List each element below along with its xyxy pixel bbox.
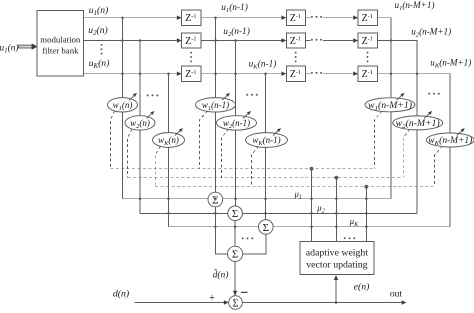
wire row1 delay2 to dots	[306, 17, 311, 19]
weight w2(n)	[125, 111, 155, 130]
dashed control to weight w2(n)	[128, 129, 133, 178]
wire tap u1(n-1) column down to summer S1	[215, 18, 217, 193]
dashed control to weight wK(n-1)	[252, 146, 259, 187]
svg-text:u2​(n-1): u2​(n-1)	[223, 26, 250, 38]
svg-text:uK​(n-1): uK​(n-1)	[249, 59, 277, 71]
vertical dots below third delay column	[367, 52, 369, 54]
svg-text:u1​(n): u1​(n)	[89, 5, 108, 17]
dashed control to weight w2(n-1)	[222, 129, 229, 178]
wire u2(n-1) row between delay columns	[201, 40, 281, 42]
wire summer S1 output down and right to final summer	[215, 207, 227, 254]
weight wK(n-1)	[246, 128, 288, 147]
wire tap u1(n) column down to sum bus 1	[122, 18, 124, 199]
ellipsis dots above update box	[344, 237, 346, 239]
wire u2(n) row from filter bank to first delay	[84, 40, 177, 42]
delay Z2 row2	[182, 33, 201, 48]
svg-text:u2​(n): u2​(n)	[88, 25, 107, 37]
summer S1 channel 1	[208, 192, 223, 207]
wire from dashed bus K into update box	[365, 187, 367, 242]
svg-text:filter bank: filter bank	[42, 45, 79, 55]
wire d(n) into error summer	[135, 302, 225, 304]
svg-text:d(n): d(n)	[113, 289, 129, 300]
wire from dashed bus 2 into update box	[335, 178, 337, 242]
svg-text:Σ: Σ	[232, 249, 238, 261]
ellipsis dots row2 between delays	[311, 39, 313, 41]
junction dots at wire crossings	[121, 16, 418, 303]
wire tap uK(n-1) column down to summer S3	[265, 74, 267, 220]
dashed control to weight w1(n-1)	[200, 111, 208, 169]
weight w2(n-M+1)	[393, 111, 443, 130]
delay Z9 rowK	[358, 66, 377, 81]
weight w1(n)	[108, 93, 138, 112]
ellipsis dots right of weight w1(n-M+1)	[428, 93, 430, 95]
svg-text:+: +	[209, 293, 215, 304]
vertical dots below second delay column	[295, 52, 297, 54]
wire uK(n) row from filter bank to first delay	[84, 73, 177, 75]
final channel summer S4	[228, 246, 243, 261]
error summer S5	[229, 296, 243, 310]
wire u2(n-M+1) from delay3 turning down	[377, 41, 417, 116]
wire row1 dots to delay3	[323, 17, 353, 19]
weight wK(n-M+1)	[426, 128, 474, 147]
weight w2(n-1)	[217, 111, 257, 130]
sum bus channel K with step size muK	[169, 226, 451, 228]
summer S2 channel 2	[228, 206, 243, 221]
wire summer S2 output down to final summer	[234, 221, 236, 247]
svg-text:u1​(n-1): u1​(n-1)	[221, 2, 248, 14]
svg-text:Σ: Σ	[212, 194, 218, 206]
svg-text:adaptive weight: adaptive weight	[306, 248, 369, 259]
svg-text:uK​(n): uK​(n)	[89, 58, 110, 70]
delay Z4 row1	[286, 10, 305, 25]
svg-text:u1​(n): u1​(n)	[0, 43, 19, 55]
wire tap u2(n-1) column down to summer S2	[235, 41, 237, 207]
delay Z5 row2	[286, 33, 305, 48]
sum bus channel 1 with step size mu1	[123, 198, 392, 200]
wire u1(n) row from filter bank to first delay	[84, 17, 177, 19]
wire uK(n-M+1) from delay3 turning down	[377, 74, 450, 133]
wire rowK delay2 to dots	[306, 73, 311, 75]
input thick arrow into modulation filter bank	[19, 43, 38, 49]
wire from dashed bus 1 into update box	[311, 169, 313, 242]
svg-text:Σ: Σ	[232, 208, 238, 220]
weight w1(n-1)	[196, 93, 236, 112]
svg-text:modulation: modulation	[40, 34, 81, 44]
wire u1(n-M+1) column down to sum bus 1 right end	[390, 112, 392, 199]
junction dot on dashed bus 2	[335, 176, 339, 180]
wire rowK dots to delay3	[323, 73, 353, 75]
wire u1(n-M+1) from delay3 turning down	[377, 18, 391, 98]
modulation filter bank box	[37, 11, 84, 76]
dashed weight bus channel 1	[111, 168, 375, 170]
minus sign at error summer	[241, 291, 248, 293]
dashed control to weight w1(n-M+1)	[375, 111, 383, 169]
wire summer S3 output down and left to final summer	[243, 234, 266, 254]
summer S3 channel K	[259, 220, 274, 235]
ellipsis dots between channel summer outputs	[242, 237, 244, 239]
wire row2 delay2 to dots	[306, 40, 311, 42]
svg-text:out: out	[390, 289, 403, 300]
dashed control to weight wK(n)	[155, 146, 160, 187]
vertical dots below first delay column	[190, 52, 192, 54]
weight w1(n-M+1)	[365, 93, 415, 112]
delay Z6 rowK	[286, 66, 305, 81]
ellipsis dots row1 between delays	[311, 16, 313, 18]
ellipsis dots between weight groups 2-3	[246, 94, 248, 96]
delay Z8 row2	[358, 33, 377, 48]
wire tap uK(n) column down to sum bus K	[168, 74, 170, 227]
dashed control to weight w2(n-M+1)	[403, 129, 410, 178]
adaptive weight vector updating box	[300, 241, 374, 274]
weight wK(n)	[153, 128, 185, 147]
wire d-hat from S4 down into error summer	[234, 261, 236, 295]
dashed weight bus channel K	[155, 186, 434, 188]
wire row2 dots to delay3	[323, 40, 353, 42]
dashed control to weight w1(n)	[111, 111, 115, 169]
dashed control to weight wK(n-M+1)	[435, 146, 443, 187]
svg-text:Σ: Σ	[232, 298, 238, 309]
sum bus channel 2 with step size mu2	[140, 212, 417, 214]
delay Z1 row1	[182, 10, 201, 25]
wire uK(n-M+1) column down to sum bus K right end	[449, 147, 451, 227]
junction dot on dashed bus K	[364, 185, 368, 189]
svg-text:e(n): e(n)	[354, 282, 370, 293]
svg-text:Σ: Σ	[263, 222, 269, 234]
junction dot on dashed bus 1	[310, 167, 314, 171]
wire uK(n-1) row between delay columns	[201, 73, 281, 75]
wire u2(n-M+1) column down to sum bus 2 right end	[416, 130, 418, 213]
dashed weight bus channel 2	[128, 177, 404, 179]
ellipsis dots between weight groups 1-2	[147, 94, 149, 96]
delay Z3 rowK	[182, 66, 201, 81]
delay Z7 row1	[358, 10, 377, 25]
wire e(n) feedback up into update box	[335, 279, 337, 302]
wire tap u2(n) column down to sum bus 2	[139, 41, 141, 214]
ellipsis dots rowK between delays	[311, 72, 313, 74]
wire u1(n-1) row between delay columns	[201, 17, 281, 19]
wire e(n) output to out	[242, 302, 402, 304]
vertical dots between u2(n) and uK(n) outputs	[101, 44, 103, 46]
svg-text:vector updating: vector updating	[306, 260, 367, 271]
